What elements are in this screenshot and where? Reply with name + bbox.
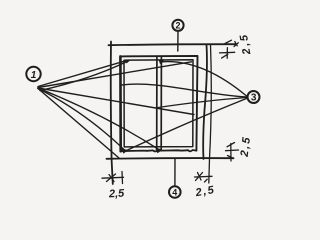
balloon 1 leader to right sash edge (38, 88, 194, 115)
right vertical dimension line (209, 45, 212, 184)
svg-text:3: 3 (251, 93, 257, 104)
bottom-right dimension arrow on dim line (226, 143, 239, 162)
balloon 2 stem (177, 31, 179, 51)
mullion right line (160, 57, 162, 150)
balloon 4 circle (169, 186, 181, 198)
arrowhead at mullion bottom (156, 149, 163, 153)
outer frame top edge extended right to dimension tick (109, 44, 237, 45)
balloon 2 circle (172, 20, 183, 31)
outer frame bottom edge extended both sides (107, 157, 234, 160)
balloon 1 leader pair to top-left sash corner (38, 61, 126, 87)
arrowhead at mullion top (159, 60, 166, 65)
top-right dimension arrows (225, 40, 238, 46)
balloon 3 long leader to bottom-left sash corner (127, 99, 247, 151)
inner frame inner rectangle (glass rebate) (124, 60, 193, 147)
bottom-right lower dimension ticks (195, 173, 213, 183)
svg-text:2,5: 2,5 (108, 188, 126, 201)
balloon 1 leader to bottom-left sash corner (38, 89, 125, 151)
svg-text:4: 4 (172, 187, 177, 197)
balloon 3 long horizontal leader to left sash edge (122, 84, 247, 97)
balloon 1 long leader to top-right sash corner (38, 62, 192, 88)
balloon 4 stem (174, 159, 176, 186)
outer frame left edge with lower extension line (111, 42, 113, 185)
balloon 3 leader to mullion top (162, 62, 247, 96)
inner frame outer rectangle (sash) (120, 56, 197, 151)
inner frame wavy bottom line with loops (121, 149, 197, 151)
svg-text:2: 2 (175, 21, 180, 31)
bottom-left dimension ticks (102, 172, 124, 184)
arrowhead at bottom-left sash corner (122, 149, 129, 154)
mullion left line (156, 57, 158, 150)
outer frame right edge (203, 45, 207, 160)
balloon 3 leader to mullion middle (156, 98, 247, 108)
balloon 1 leader to mullion bottom (38, 88, 158, 149)
arrowhead at top-left sash corner (125, 60, 131, 64)
balloon 3 circle (248, 91, 260, 103)
balloon 1 leader to outer frame bottom corner (38, 89, 119, 159)
svg-text:1: 1 (31, 70, 37, 81)
balloon 1 circle (26, 67, 40, 81)
